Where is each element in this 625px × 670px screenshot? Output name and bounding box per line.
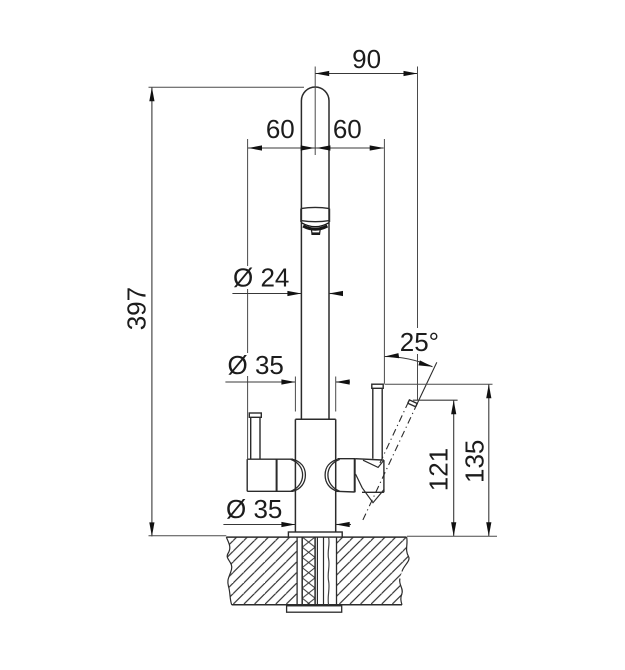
svg-text:60: 60 bbox=[266, 114, 295, 144]
aerator nozzle bbox=[311, 230, 320, 234]
ref line 135 top bbox=[385, 383, 493, 385]
svg-text:397: 397 bbox=[121, 287, 151, 330]
right connector bulb bbox=[325, 459, 340, 491]
countertop broken right edge bbox=[400, 537, 409, 605]
dim diam24 line bbox=[232, 293, 342, 295]
left handle lever bbox=[249, 413, 261, 459]
spout tube bbox=[301, 87, 329, 419]
dim 397 arrows bbox=[149, 87, 154, 536]
svg-text:135: 135 bbox=[459, 440, 489, 483]
supply pipe bbox=[317, 537, 323, 605]
svg-text:Ø 35: Ø 35 bbox=[226, 494, 282, 524]
dim diam35 lower arrows bbox=[281, 522, 349, 527]
ref line 397 top bbox=[149, 86, 305, 88]
dim 121 arrows bbox=[451, 400, 456, 536]
svg-text:60: 60 bbox=[333, 114, 362, 144]
countertop broken left edge bbox=[226, 537, 231, 605]
dim 60 arrows bbox=[248, 145, 384, 150]
right upright handle lever bbox=[372, 384, 383, 459]
ext line spout centre bbox=[314, 67, 316, 156]
svg-text:25°: 25° bbox=[400, 327, 439, 357]
right valve housing bbox=[337, 459, 384, 493]
handle pivot cut lines upper V bbox=[363, 460, 383, 467]
ref line 397 bottom bbox=[149, 535, 227, 537]
countertop top edge bbox=[226, 536, 406, 538]
left valve housing bbox=[247, 459, 293, 491]
fastening nut bbox=[287, 606, 342, 612]
tilted handle sides dash-dot bbox=[379, 402, 408, 465]
countertop bottom edge bbox=[232, 604, 402, 606]
ext line 60 left bbox=[247, 139, 249, 459]
spout outlet collar bbox=[301, 207, 330, 222]
dim diam35 lower line bbox=[223, 524, 351, 526]
svg-text:121: 121 bbox=[423, 448, 453, 491]
text background masks bbox=[226, 266, 440, 376]
svg-text:Ø 24: Ø 24 bbox=[233, 262, 289, 292]
ext line 60 right / 25deg vertical leg bbox=[383, 139, 385, 384]
dim 60 60 line bbox=[248, 147, 384, 149]
ref line 121 top bbox=[413, 399, 458, 401]
ref line countertop right bbox=[407, 535, 497, 537]
base flange bbox=[288, 532, 342, 537]
25 deg arc arrows bbox=[385, 353, 433, 367]
dim 90 line bbox=[315, 73, 417, 75]
25 deg arc bbox=[385, 357, 433, 367]
countertop hatched section left bbox=[226, 537, 297, 605]
dim 90 arrows bbox=[315, 71, 417, 76]
dimension texts bbox=[121, 44, 489, 524]
faucet body column bbox=[295, 419, 335, 532]
ext lines diam35 upper bbox=[295, 377, 335, 412]
ext line right of 90 bbox=[417, 67, 419, 401]
aerator dark ring bbox=[302, 223, 329, 229]
mounting hole edges bbox=[297, 537, 336, 605]
dim 121 line bbox=[453, 400, 455, 536]
svg-text:90: 90 bbox=[352, 44, 381, 74]
svg-text:Ø 35: Ø 35 bbox=[228, 350, 284, 380]
dim 135 arrows bbox=[486, 384, 491, 536]
dim 397 line bbox=[151, 87, 153, 536]
tilted handle cap (25 deg) bbox=[408, 400, 417, 407]
dim 135 line bbox=[488, 384, 490, 536]
threaded shank bbox=[302, 537, 315, 605]
dim diam24 arrows bbox=[287, 291, 343, 296]
handle pivot cut lines lower V bbox=[356, 474, 385, 503]
countertop hatched section right bbox=[337, 537, 410, 605]
handle axis line bbox=[362, 362, 437, 521]
dim diam35 upper arrows bbox=[281, 379, 349, 384]
dim diam35 upper line bbox=[225, 381, 350, 383]
flexible hose wavy line bbox=[327, 537, 330, 605]
left connector bulb bbox=[291, 459, 306, 491]
